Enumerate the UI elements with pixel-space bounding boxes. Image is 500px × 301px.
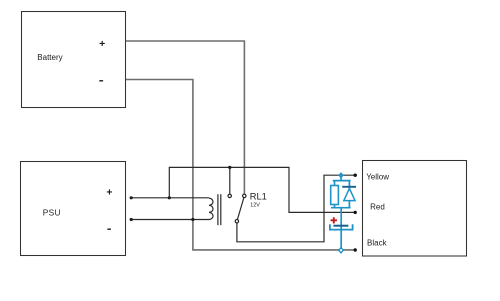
resistor (teal) stem top: [334, 181, 336, 186]
terminal dot Red: [354, 211, 357, 214]
capacitor bottom stem: [340, 230, 342, 248]
junction node coil-bottom/battery-: [191, 218, 194, 221]
svg-text:+: +: [106, 187, 112, 199]
svg-text:Red: Red: [370, 203, 385, 212]
svg-text:12V: 12V: [250, 202, 260, 208]
node diamond top (snubber to yellow wire): [339, 173, 343, 178]
diode triangle: [344, 188, 355, 200]
wire stub to relay NC contact: [229, 167, 231, 194]
junction PSU+ dot: [130, 196, 133, 199]
svg-text:PSU: PSU: [43, 207, 61, 217]
node diamond bottom (snubber to black wire): [339, 248, 344, 253]
battery box: [22, 12, 126, 108]
junction PSU- dot: [130, 218, 133, 221]
wire battery + to relay NO contact: [126, 41, 244, 194]
wire relay common to Yellow terminal: [237, 175, 355, 242]
relay NC contact circle: [228, 194, 231, 197]
terminal dot Yellow: [354, 174, 357, 177]
diode cathode bar: [342, 186, 356, 188]
relay switch arm: [237, 198, 244, 220]
svg-text:+: +: [99, 38, 105, 50]
capacitor bottom cup plate: [330, 224, 353, 229]
diode (teal) vertical lead: [348, 181, 350, 208]
wire PSU + to relay coil top: [131, 197, 209, 199]
PSU box: [21, 162, 126, 256]
relay RL1 coil: [209, 198, 213, 219]
relay core bar 1: [217, 194, 219, 225]
svg-text:RL1: RL1: [250, 191, 267, 201]
snubber top stem: [340, 178, 342, 181]
wire battery - to Black terminal: [126, 80, 355, 250]
capacitor polarity + (red): [331, 217, 337, 223]
resistor (teal) body: [331, 186, 339, 205]
snubber bottom rail: [331, 207, 351, 209]
wire PSU - to relay coil bottom: [131, 219, 209, 221]
relay core bar 2: [220, 194, 222, 225]
relay common contact circle: [235, 220, 238, 223]
PSU minus terminal label: [107, 229, 111, 230]
wire node PSU+ up and over to Red terminal: [169, 167, 354, 212]
junction node coil-top/up-wire: [168, 196, 171, 199]
svg-text:Yellow: Yellow: [366, 173, 389, 182]
snubber top rail: [333, 180, 351, 182]
resistor (teal) stem bottom: [334, 205, 336, 208]
junction node NC stub: [228, 166, 231, 169]
capacitor top plate: [333, 225, 348, 227]
svg-text:Battery: Battery: [37, 53, 62, 62]
svg-text:Black: Black: [367, 239, 388, 248]
snubber mid stem (through Red node): [340, 208, 342, 230]
terminal dot Black: [354, 248, 357, 251]
terminal block box: [363, 161, 467, 257]
relay NO contact circle: [243, 194, 246, 197]
battery minus terminal label: [99, 80, 103, 81]
